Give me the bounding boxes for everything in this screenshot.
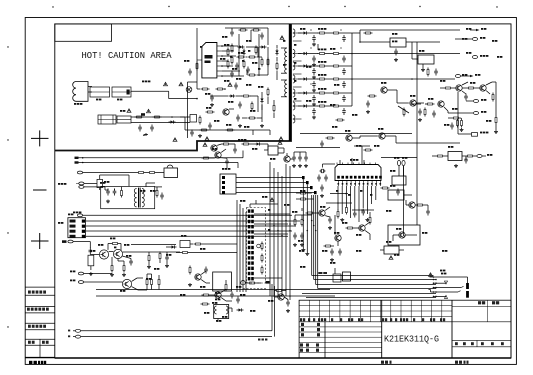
wire sec row 4	[298, 92, 352, 94]
title left labels	[300, 323, 320, 352]
res R401	[427, 68, 429, 77]
gnd reg	[394, 58, 398, 61]
label reg	[392, 33, 397, 35]
wire snub	[276, 45, 278, 80]
wire reg out	[360, 30, 460, 42]
res RPc2	[231, 56, 233, 65]
IF block cluster	[381, 170, 407, 196]
cap C830	[225, 159, 229, 166]
wire mesh mid h1	[326, 202, 352, 204]
label Pc1	[246, 40, 251, 42]
T801 pin stubs right	[293, 33, 302, 119]
label prim low1	[205, 93, 210, 95]
npn Q809	[215, 292, 222, 298]
wire I mesh	[432, 156, 466, 160]
res R853	[202, 294, 211, 296]
cap C404	[450, 123, 454, 130]
registration mark top dots	[52, 6, 497, 8]
cap C402	[464, 94, 468, 101]
filter cap C853	[312, 68, 316, 75]
wire prim mesh2	[246, 47, 262, 57]
margin table text row2	[27, 308, 49, 311]
res R407	[452, 117, 461, 119]
res RP3	[273, 104, 275, 113]
label conn top	[394, 157, 407, 159]
cap CS2	[320, 141, 324, 148]
res RS4	[403, 108, 405, 117]
CN802 pin drops	[301, 179, 309, 255]
warning tri snub	[280, 36, 284, 40]
label lm5	[140, 190, 145, 192]
strip circle spark gap	[257, 244, 261, 248]
wire mesh mid h2	[330, 193, 348, 195]
CRT neck bar upper	[466, 283, 469, 289]
res R402	[444, 87, 453, 89]
frame bottom emphasis	[55, 357, 511, 359]
cap CH3	[320, 185, 324, 192]
box J component	[380, 241, 404, 254]
label amp2	[126, 255, 131, 257]
label Q851	[381, 82, 386, 84]
gnd G1	[188, 283, 192, 286]
diode mid	[166, 245, 177, 248]
res R854	[225, 283, 227, 292]
res R855	[318, 92, 327, 94]
res R825	[199, 116, 201, 125]
cap CH1	[353, 211, 357, 218]
cap CI1	[464, 157, 468, 164]
junction dot row2	[171, 116, 173, 118]
diode DK1	[237, 308, 244, 311]
res R813	[248, 56, 257, 58]
label CN802	[222, 168, 230, 170]
rect diode D854	[302, 77, 309, 80]
U201 fan wires	[338, 186, 376, 222]
gnd prim2	[238, 124, 242, 127]
cap CX801	[117, 116, 131, 123]
xtal X201	[317, 164, 335, 182]
junction dot col crt	[433, 276, 437, 297]
gnd sec 0	[312, 43, 316, 46]
conn oval pair top	[397, 160, 405, 176]
label under fuse	[96, 99, 101, 101]
label M1	[292, 211, 297, 213]
label Q204	[396, 228, 401, 230]
label +B	[466, 28, 471, 30]
T801 sec winding 2	[293, 50, 295, 58]
degauss cap C820	[106, 189, 110, 196]
res R829	[200, 129, 209, 131]
label cluster prim2	[252, 62, 257, 64]
tri J1	[389, 256, 393, 259]
cap C860	[342, 81, 346, 88]
label sec 3	[318, 74, 326, 76]
gnd sec 4	[312, 103, 316, 106]
res RH3	[306, 212, 315, 214]
res RI1	[436, 155, 445, 157]
wire sec row 5	[298, 105, 352, 107]
res R823	[251, 102, 253, 111]
wire G mesh	[195, 271, 233, 301]
choke L852	[332, 53, 341, 55]
gnd prim1	[210, 103, 214, 106]
filter cap C852	[312, 56, 316, 63]
res RK1	[201, 303, 210, 305]
conn oval y273	[70, 271, 112, 275]
diode D806	[238, 45, 245, 48]
label cluster prim1	[238, 52, 243, 54]
res R860	[364, 32, 373, 34]
AC riser up2	[274, 286, 276, 337]
label sec r4	[334, 84, 339, 86]
warning tri A4	[205, 137, 209, 141]
cap CP2	[260, 33, 264, 40]
reg block U851	[386, 38, 414, 47]
wire AC top	[131, 91, 197, 98]
label P7	[206, 107, 211, 109]
revision box	[55, 24, 112, 41]
horiz bus y297	[306, 297, 436, 299]
res RPc4	[255, 46, 257, 55]
sound block U202	[388, 185, 412, 200]
filter cap C854	[312, 81, 316, 88]
res RH1	[337, 210, 339, 219]
svg-text:K21EK311Q-G: K21EK311Q-G	[384, 334, 439, 345]
gnd deg	[106, 200, 110, 203]
title block grid	[299, 300, 511, 358]
gnd sec 3	[312, 89, 316, 92]
label rc5	[444, 124, 449, 126]
label AC right	[258, 339, 267, 341]
wire P mesh	[262, 92, 274, 118]
tri E1	[203, 143, 207, 147]
label amp3	[154, 268, 159, 270]
wire prim low mesh	[197, 89, 262, 122]
CRT wire k4	[434, 295, 448, 298]
cap C809	[235, 63, 239, 70]
label G2	[212, 302, 217, 304]
res R814	[248, 74, 257, 76]
cap C860	[394, 49, 398, 56]
label P8	[250, 110, 255, 112]
wire H mesh2	[355, 212, 371, 240]
title right top label	[478, 301, 499, 304]
gnd vs3	[494, 130, 498, 133]
res R815	[261, 58, 263, 67]
npn Q806b	[215, 152, 222, 158]
primary extra labels	[224, 44, 260, 86]
npn Q806	[113, 249, 122, 258]
npn Q202	[359, 225, 366, 231]
T801 primary winding	[285, 48, 287, 73]
T801 sec winding 4	[293, 75, 295, 83]
box M component	[333, 268, 341, 282]
wire top rail drop	[251, 28, 268, 45]
diode D807	[260, 45, 267, 48]
wire top rail	[225, 28, 268, 30]
small IC U401	[412, 50, 434, 71]
horiz bus y275	[312, 275, 434, 277]
label P4	[200, 46, 202, 48]
warning tri crt	[429, 273, 433, 277]
res R853	[318, 65, 327, 67]
CRT strip dashed outline	[247, 208, 266, 284]
extra labels 2	[298, 240, 361, 268]
lamp symbol	[186, 87, 192, 93]
conn oval y172	[77, 171, 136, 174]
gnd sec 1	[312, 63, 316, 66]
res RH2	[345, 206, 347, 215]
label sec 2	[318, 61, 326, 63]
junction dots ac	[187, 88, 226, 123]
horiz bus y284	[316, 284, 436, 286]
cap CPc1	[234, 83, 238, 90]
gnd amp3	[122, 273, 126, 276]
label w76	[462, 74, 467, 76]
res R848v	[146, 278, 148, 287]
margin format text	[29, 361, 46, 364]
label degauss	[73, 181, 109, 213]
res R404	[492, 93, 494, 102]
npn Q210	[335, 235, 342, 241]
res RH4	[346, 227, 355, 229]
wire filt out bot	[131, 122, 190, 124]
CRT wire k3	[429, 290, 461, 293]
res R824	[206, 111, 215, 113]
wire prim bottom rail	[180, 117, 270, 130]
label mid3	[342, 222, 347, 224]
AC plug label	[74, 103, 82, 105]
npn Q402	[480, 85, 487, 91]
label under filter	[117, 99, 122, 101]
wire vert stage	[440, 82, 496, 94]
wire sec row 2	[298, 65, 352, 67]
posistor RT801	[97, 175, 103, 190]
AC plug P801	[73, 82, 88, 102]
out conn 113	[444, 107, 486, 115]
label filt	[120, 110, 125, 112]
res R811	[227, 60, 229, 69]
CRT top wire	[430, 277, 468, 283]
cap C814	[236, 115, 240, 122]
label U201	[350, 159, 358, 161]
label P3	[258, 86, 263, 88]
AC long wire L	[81, 330, 272, 332]
choke L854	[332, 78, 341, 80]
horiz bus y288	[318, 288, 436, 290]
npn Q204	[399, 232, 406, 238]
res R851	[318, 32, 327, 34]
cap CK1	[236, 297, 240, 304]
res RP1	[196, 62, 198, 71]
AC long wire N	[81, 336, 272, 338]
diode D801	[169, 120, 176, 123]
T801 primary lower winding	[285, 80, 287, 97]
CN801 pin4	[70, 235, 289, 238]
gnd S4	[418, 118, 422, 121]
wire K mesh	[218, 291, 288, 323]
res RM3	[324, 245, 333, 247]
cap CK2	[286, 300, 290, 307]
label Q854	[345, 130, 350, 132]
label prim low3	[214, 120, 219, 122]
label bc2	[268, 300, 273, 302]
label lm3	[146, 278, 151, 280]
T801 sec winding 1	[293, 29, 295, 37]
choke L855	[332, 92, 341, 94]
res R852	[318, 53, 327, 55]
res second row2	[153, 116, 162, 118]
wire micro right	[381, 158, 417, 237]
label E3	[270, 158, 275, 160]
label ACL	[68, 330, 70, 338]
centre mark cross lower	[31, 233, 49, 249]
label sec r3	[306, 66, 311, 68]
connector CN802 shell	[220, 174, 236, 194]
CN801 pin3	[70, 230, 293, 233]
below-frame text right	[455, 361, 469, 364]
wire E mesh	[217, 144, 268, 150]
cap C807	[230, 30, 234, 37]
cap C810	[246, 67, 250, 74]
cap C817	[190, 130, 194, 137]
cap C861	[342, 95, 346, 102]
rect diode D853	[302, 64, 309, 67]
label Pc3	[242, 60, 244, 62]
jumper box mid	[180, 235, 193, 248]
label I1	[448, 146, 453, 148]
res R831	[242, 143, 251, 145]
label M2	[299, 250, 304, 252]
cap C862	[342, 108, 346, 115]
snubber res R805	[276, 62, 278, 71]
diag wire q852	[398, 106, 409, 113]
label S2	[352, 114, 357, 116]
gnd J1	[330, 258, 334, 261]
cap C828	[204, 267, 208, 274]
gnd M1	[293, 243, 297, 246]
margin table text row4	[28, 341, 49, 344]
label rc2	[470, 82, 475, 84]
shield box Q204	[388, 225, 420, 245]
res R408	[457, 119, 463, 128]
cap C825	[129, 259, 133, 266]
cap C857	[342, 35, 346, 42]
wire prim vert1	[247, 47, 268, 75]
line filter L801	[112, 87, 131, 97]
gnd M2	[300, 243, 304, 246]
cap CH5	[426, 209, 430, 216]
res R822	[242, 95, 251, 97]
choke L851	[332, 32, 341, 34]
svg-text:HOT! CAUTION AREA: HOT! CAUTION AREA	[82, 51, 173, 61]
U201 top ticks	[337, 163, 376, 165]
strip top wire	[250, 200, 278, 208]
registration mark left dots	[7, 46, 8, 327]
junction dots sec	[351, 41, 413, 80]
label E1	[238, 139, 246, 141]
degauss conn oval1	[79, 182, 97, 185]
CN801 pin1	[70, 220, 301, 223]
cap C812	[210, 95, 214, 102]
junction dots bus2	[269, 220, 316, 297]
wire sec row 0	[298, 32, 352, 34]
gnd I1	[454, 164, 458, 167]
T801 pin numbers	[283, 40, 296, 100]
long wire y138b	[396, 142, 460, 144]
CRT strip pins left	[248, 209, 251, 280]
sec vert rail1	[352, 33, 360, 106]
wire M mesh	[295, 208, 312, 218]
gnd H1	[340, 218, 344, 221]
npn Q808	[195, 274, 202, 280]
vert bus x237-246	[237, 200, 246, 292]
diode D808	[229, 94, 236, 97]
gnd P1	[198, 134, 202, 137]
filter cap C851	[312, 35, 316, 42]
res RPc1	[231, 44, 233, 53]
label lm6	[166, 254, 171, 256]
res R406	[424, 108, 426, 117]
gnd K1	[286, 309, 290, 312]
res R844	[111, 264, 113, 273]
wire sec long1	[352, 53, 460, 55]
label P1	[184, 60, 189, 62]
res R403	[467, 87, 476, 89]
U201 top pins	[340, 158, 364, 165]
CN801 pin2	[70, 225, 297, 228]
label H pins	[336, 190, 372, 196]
res RM1	[294, 218, 296, 227]
CRT wire k1	[434, 281, 448, 284]
warning tri wire2	[179, 82, 183, 86]
margin table text row1	[28, 291, 46, 294]
U201 top T wire	[354, 146, 370, 165]
standby parts row	[241, 281, 270, 285]
sec electrolytic plus	[310, 29, 341, 84]
res R852	[189, 266, 191, 275]
box at bus bend	[343, 272, 351, 281]
bus res pair	[318, 272, 327, 274]
label E2	[252, 148, 257, 150]
conn oval y282	[70, 280, 122, 284]
out conn 39	[455, 37, 485, 41]
bus wire b1	[96, 289, 330, 291]
CN802 wires	[236, 176, 317, 194]
vert section frame wire	[411, 42, 413, 59]
res RS3	[326, 137, 335, 139]
degauss cap C821	[113, 189, 117, 196]
wire Q806b	[211, 149, 228, 168]
npn Q201	[319, 210, 326, 216]
wire vs2	[412, 104, 462, 119]
fuse F801	[90, 87, 110, 97]
res RS1	[368, 95, 377, 97]
gnd cy	[143, 133, 148, 136]
warning tri A2	[127, 109, 131, 113]
res R821 lower	[216, 88, 225, 90]
strip wires right	[254, 214, 290, 278]
vert bundle to bus	[312, 195, 318, 289]
cap CY802	[150, 125, 154, 132]
label rc1	[440, 80, 445, 82]
bus wire b2	[96, 295, 335, 297]
res RI2	[466, 155, 475, 157]
cap CPc2	[230, 71, 234, 78]
label P9	[226, 124, 231, 126]
res RP2	[267, 88, 269, 97]
CRT wire k2	[434, 286, 464, 287]
